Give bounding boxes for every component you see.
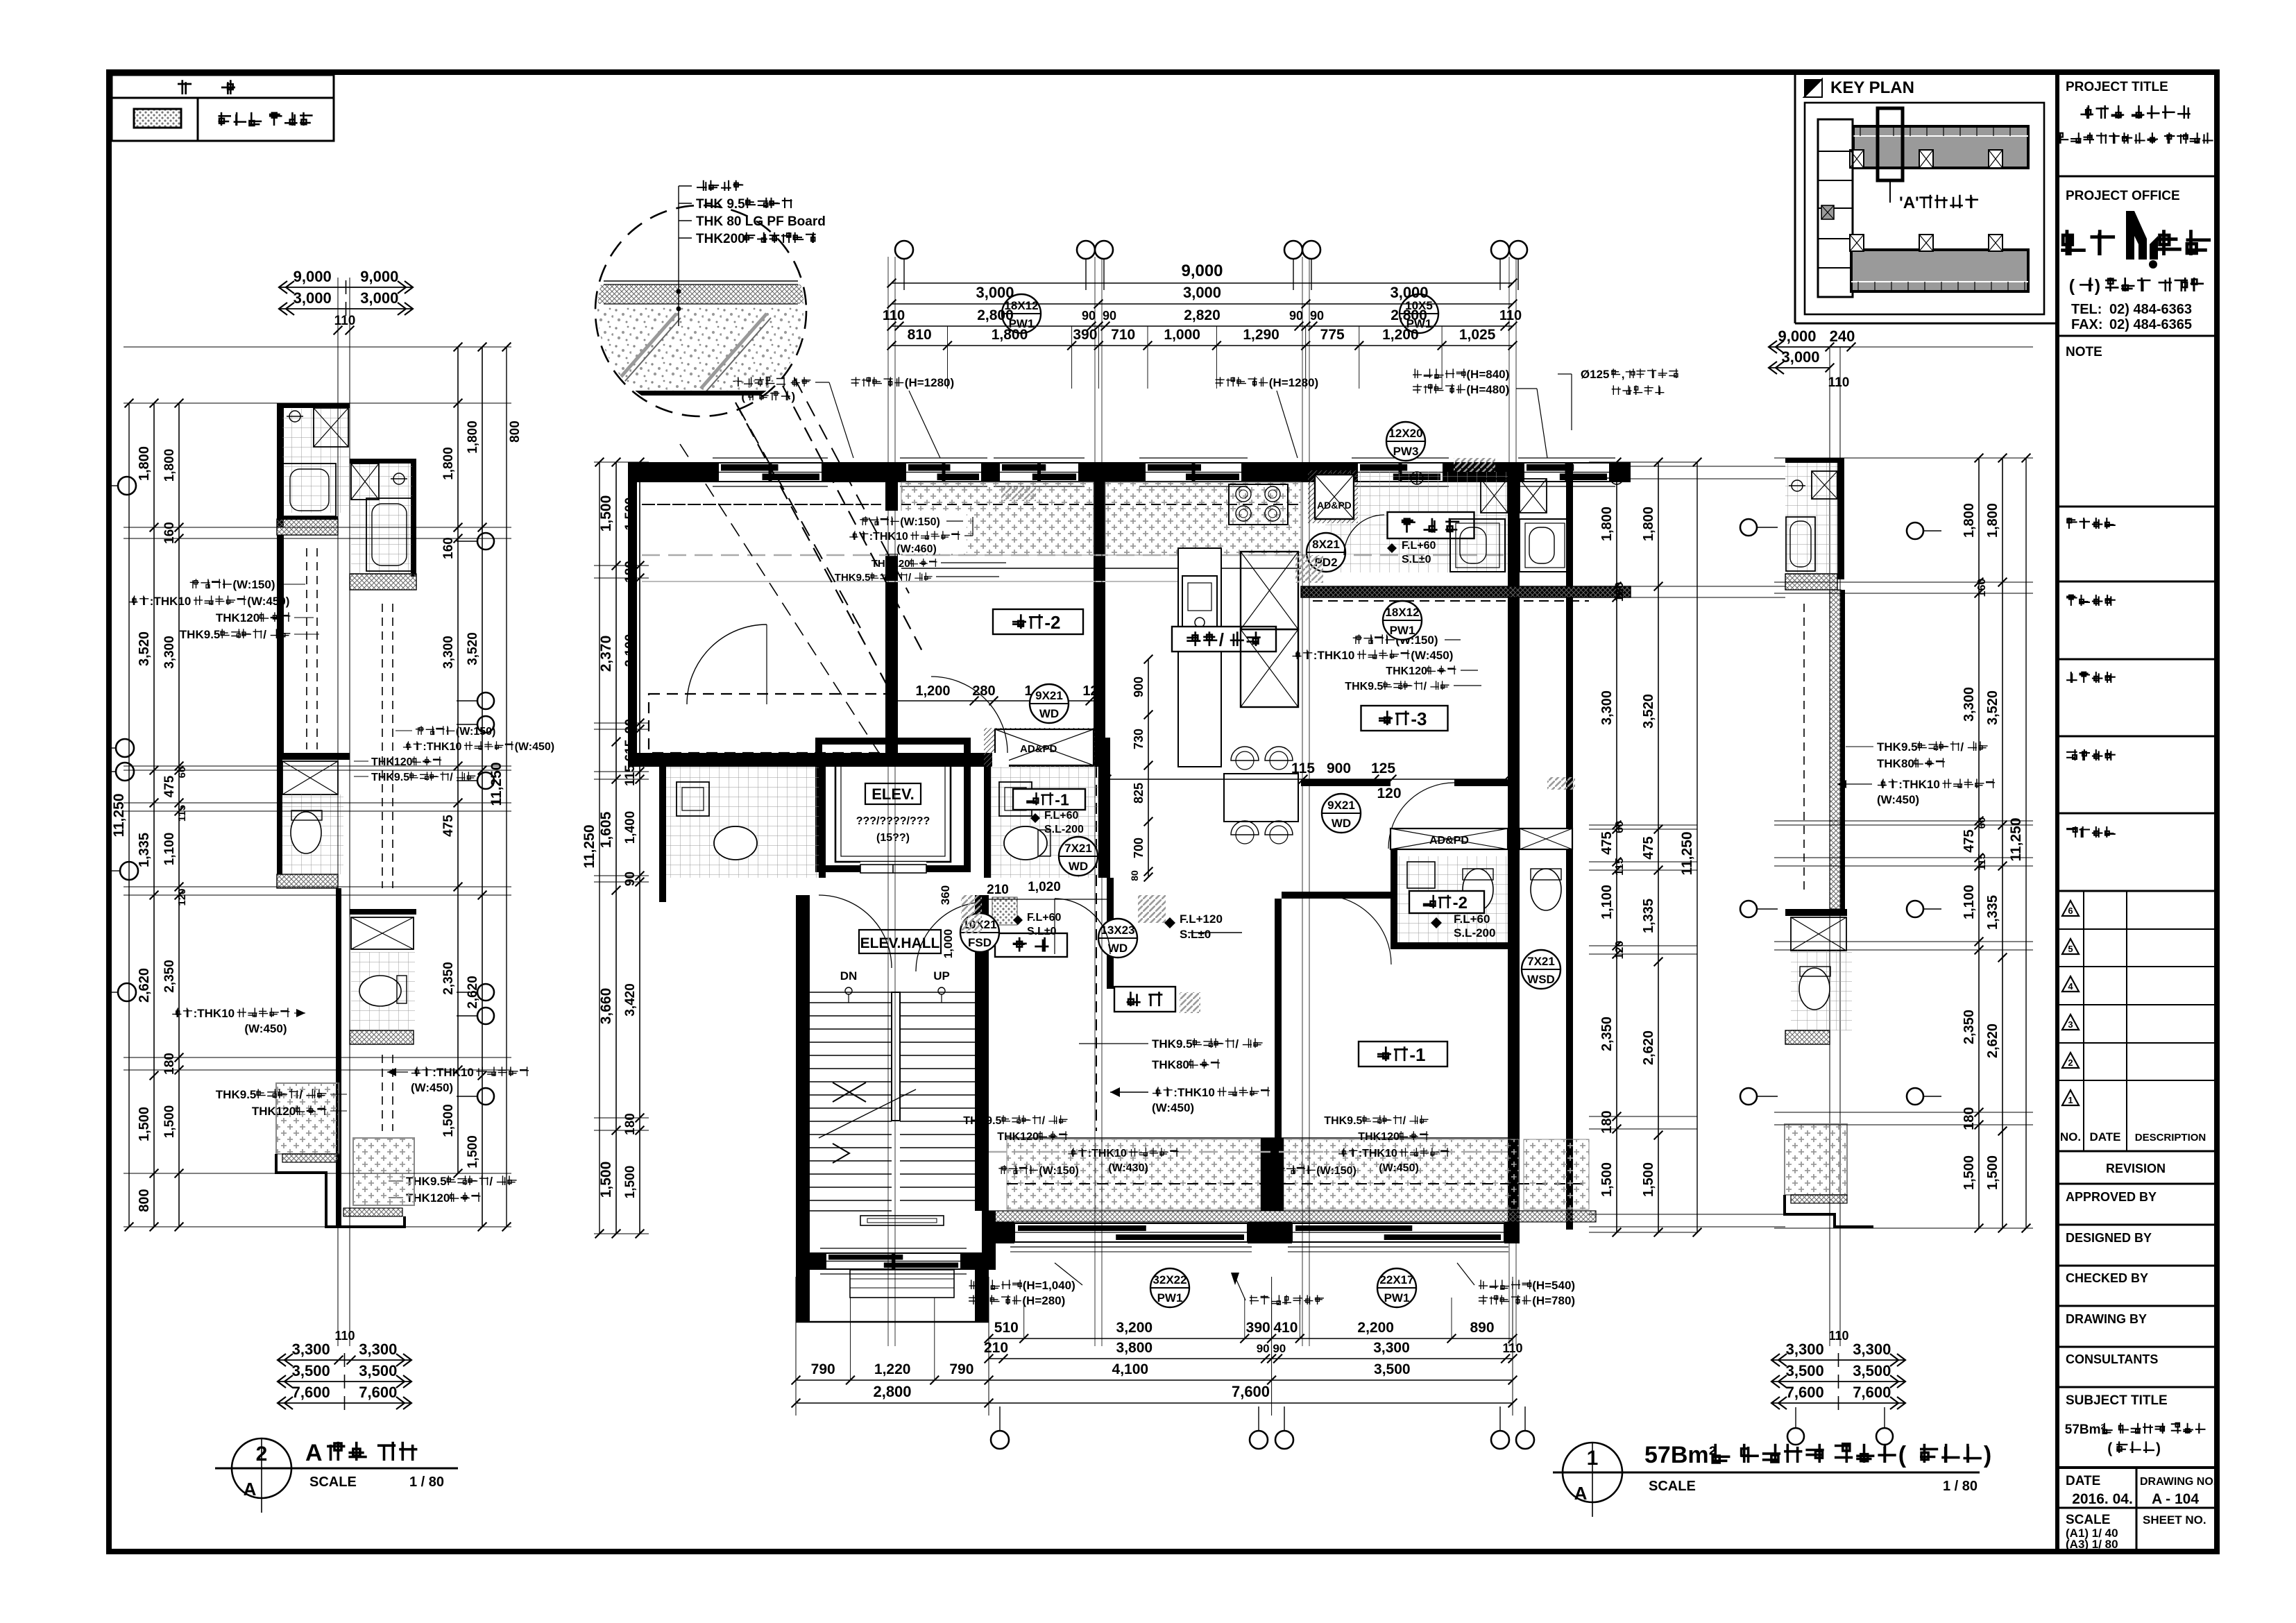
svg-text:7,600: 7,600 [1786, 1384, 1824, 1401]
svg-text:3,000: 3,000 [360, 289, 398, 307]
svg-text:(W:150): (W:150) [232, 578, 275, 591]
closet (X) next to kitchen [1241, 552, 1298, 629]
right strip balcony hatches [1785, 1124, 1847, 1195]
left strip left leaders lower [172, 1008, 181, 1017]
svg-text:F.L+60: F.L+60 [1454, 912, 1490, 926]
svg-text:2: 2 [256, 1443, 268, 1465]
svg-text:,: , [1622, 368, 1625, 381]
svg-text:(W:450): (W:450) [244, 1022, 287, 1035]
stair block bottom wall [796, 1252, 989, 1270]
svg-text:WD: WD [1108, 942, 1128, 955]
svg-text:(W:450): (W:450) [247, 595, 289, 608]
svg-text:120: 120 [1377, 785, 1401, 801]
svg-text:60: 60 [1614, 821, 1626, 833]
svg-text:): ) [792, 390, 796, 403]
demolition dashed diagonals [735, 402, 892, 694]
svg-text:(W:430): (W:430) [1108, 1162, 1148, 1174]
svg-text:110: 110 [1499, 308, 1522, 323]
svg-text:3,520: 3,520 [466, 632, 480, 665]
svg-text:SCALE: SCALE [2066, 1513, 2110, 1527]
bathtub neighbour [1520, 519, 1570, 572]
svg-text:18X12: 18X12 [1385, 606, 1419, 619]
left strip right-side dims [457, 347, 459, 1173]
top dim chains [892, 282, 1513, 284]
svg-text:9,000: 9,000 [1181, 262, 1223, 280]
svg-text:3,300: 3,300 [162, 636, 177, 669]
right dim chains of main plan [1589, 461, 1697, 463]
svg-text:1: 1 [2068, 1095, 2073, 1105]
svg-text:110: 110 [883, 308, 905, 323]
svg-text:THK120: THK120 [216, 611, 260, 624]
svg-text:S.L±0: S.L±0 [1402, 554, 1431, 566]
svg-text:790: 790 [811, 1361, 835, 1377]
svg-text:3,500: 3,500 [1853, 1362, 1891, 1379]
svg-text:CONSULTANTS: CONSULTANTS [2066, 1352, 2158, 1366]
svg-text:730: 730 [1132, 729, 1146, 749]
svg-text:AD&PD: AD&PD [1317, 500, 1352, 511]
svg-text:120: 120 [1614, 941, 1626, 960]
svg-text:475: 475 [1641, 836, 1656, 859]
svg-text:3: 3 [2068, 1019, 2073, 1030]
svg-text:1,290: 1,290 [1243, 327, 1279, 343]
svg-text:90: 90 [1082, 309, 1096, 323]
svg-text:240: 240 [1830, 328, 1855, 345]
svg-text::THK10: :THK10 [1313, 649, 1355, 662]
svg-text:THK9.5: THK9.5 [371, 772, 409, 783]
left strip top bath [277, 403, 350, 408]
svg-text:2,800: 2,800 [873, 1383, 911, 1400]
faucet symbols [1411, 472, 1423, 484]
svg-text:360: 360 [939, 885, 952, 905]
svg-text::THK10: :THK10 [869, 531, 908, 543]
svg-text:80: 80 [1129, 870, 1140, 881]
svg-text:(A3) 1/ 80: (A3) 1/ 80 [2066, 1538, 2118, 1551]
svg-text:3,000: 3,000 [1390, 284, 1428, 301]
svg-text:4,100: 4,100 [1112, 1361, 1149, 1377]
bed2 door opening [992, 753, 1009, 767]
svg-text:1,500: 1,500 [1962, 1155, 1977, 1190]
svg-text:(W:150): (W:150) [456, 726, 496, 738]
svg-text:DESIGNED BY: DESIGNED BY [2066, 1231, 2152, 1245]
svg-text:700: 700 [1132, 838, 1146, 858]
AD&PD next to elevator [984, 728, 1095, 767]
svg-text:1 / 80: 1 / 80 [409, 1475, 444, 1490]
bath2 (욕실-2) [1391, 849, 1397, 946]
neighbour toilet [1531, 869, 1561, 910]
left party wall / grid walls [885, 462, 898, 767]
svg-text:120: 120 [176, 888, 188, 906]
svg-text:F.L+60: F.L+60 [1027, 912, 1061, 924]
svg-text:120: 120 [1082, 683, 1105, 699]
svg-text:DRAWING BY: DRAWING BY [2066, 1312, 2147, 1326]
bath1 (욕실-1) [988, 767, 1103, 878]
svg-text:UP: UP [933, 969, 950, 983]
svg-text:NOTE: NOTE [2066, 345, 2102, 359]
svg-text:2,100: 2,100 [623, 634, 638, 668]
svg-text:PW1: PW1 [1390, 624, 1415, 637]
right strip top dims [1769, 346, 1851, 348]
keyplan upper wing [1853, 126, 2028, 168]
svg-text:475: 475 [441, 815, 456, 837]
svg-text:390: 390 [1073, 327, 1097, 343]
svg-text:390: 390 [1246, 1320, 1270, 1336]
detail leader texts [697, 180, 707, 191]
svg-text:7,600: 7,600 [1232, 1383, 1270, 1400]
svg-text:SCALE: SCALE [309, 1475, 357, 1490]
svg-text:475: 475 [1962, 829, 1977, 852]
svg-text:THK120: THK120 [252, 1105, 296, 1118]
svg-text:800: 800 [137, 1189, 152, 1212]
svg-text:APPROVED BY: APPROVED BY [2066, 1190, 2157, 1204]
svg-text:11,250: 11,250 [581, 824, 597, 868]
right strip top bath [1785, 458, 1844, 463]
svg-text:3,200: 3,200 [1116, 1320, 1153, 1336]
svg-text:1: 1 [1587, 1447, 1599, 1470]
svg-text:(W:460): (W:460) [896, 543, 937, 555]
svg-text:-3: -3 [1411, 708, 1427, 729]
bottom dim chains [989, 1338, 1513, 1339]
balcony hatched strip (top, 확장 발코니) [901, 482, 1094, 555]
svg-text:(W:450): (W:450) [1379, 1162, 1419, 1174]
svg-text:/: / [263, 628, 266, 641]
left strip grid verticals [337, 278, 339, 1346]
bedroom2 bottom wall [628, 753, 1105, 767]
svg-text:7,600: 7,600 [359, 1384, 397, 1401]
svg-text:60: 60 [176, 767, 188, 779]
svg-text:(W:150): (W:150) [900, 516, 940, 528]
svg-text:(H=840): (H=840) [1466, 368, 1509, 381]
bedroom2 room label [993, 609, 1083, 634]
svg-text:810: 810 [908, 327, 932, 343]
svg-text:FAX:: FAX: [2071, 317, 2103, 332]
key plan [1794, 72, 1796, 323]
svg-text:2: 2 [2068, 1057, 2073, 1068]
svg-text:3,300: 3,300 [1373, 1340, 1410, 1356]
svg-text:3,000: 3,000 [1183, 284, 1221, 301]
svg-text:1,500: 1,500 [1985, 1155, 2000, 1190]
svg-text:475: 475 [1599, 831, 1615, 854]
svg-text:02) 484-6363: 02) 484-6363 [2109, 302, 2192, 317]
svg-text:): ) [2156, 1441, 2161, 1456]
svg-text:Ø125: Ø125 [1581, 368, 1610, 381]
svg-text:11,250: 11,250 [111, 793, 127, 837]
svg-text:1,335: 1,335 [1641, 899, 1656, 933]
stair block side walls [796, 895, 810, 1252]
living room [1114, 987, 1175, 1012]
bottom window band [1014, 1223, 1248, 1242]
svg-text:): ) [2095, 276, 2100, 296]
svg-text:3,660: 3,660 [598, 988, 614, 1025]
svg-text:1,500: 1,500 [623, 498, 638, 531]
svg-text:DRAWING NO.: DRAWING NO. [2140, 1476, 2216, 1488]
elevator room [815, 738, 971, 745]
svg-text:90: 90 [1289, 309, 1303, 323]
grid bubbles top [895, 241, 913, 259]
left strip step boundary [276, 1154, 405, 1227]
svg-text:2,620: 2,620 [137, 968, 152, 1003]
svg-text:(W:450): (W:450) [411, 1081, 453, 1094]
left strip side dim chains [124, 402, 354, 404]
svg-text:(: ( [2069, 276, 2075, 296]
detail callout circle [595, 205, 806, 416]
svg-text:3,500: 3,500 [1786, 1362, 1824, 1379]
bathtub this unit [1450, 519, 1505, 572]
svg-text:125: 125 [1371, 760, 1395, 776]
bottom balcony hatched strips [1007, 1139, 1261, 1209]
svg-text:110: 110 [334, 1329, 355, 1343]
svg-text:2,620: 2,620 [466, 976, 480, 1009]
AD&PD shafts mid-right [1391, 829, 1508, 849]
svg-text:1,500: 1,500 [162, 1105, 177, 1139]
svg-text:9X21: 9X21 [1327, 799, 1355, 812]
left strip wall/window mid [277, 753, 350, 760]
left dim chains of main plan [615, 462, 617, 1234]
kitchen hatch leader texts [859, 511, 967, 554]
svg-text:ELEV.HALL: ELEV.HALL [860, 935, 940, 951]
svg-text:A - 104: A - 104 [2152, 1491, 2199, 1507]
svg-text:DATE: DATE [2066, 1474, 2100, 1488]
svg-text:THK200: THK200 [696, 232, 745, 246]
svg-text:/: / [1235, 1037, 1239, 1051]
svg-text:THK9.5: THK9.5 [1324, 1115, 1362, 1127]
svg-text:WSD: WSD [1527, 973, 1555, 986]
svg-text:3,300: 3,300 [1786, 1341, 1824, 1358]
svg-text:/: / [1219, 629, 1224, 650]
bedroom2 door dim row [892, 700, 1098, 702]
svg-text:/: / [1042, 1115, 1046, 1127]
svg-text:1,100: 1,100 [162, 833, 177, 866]
keyplan A-detail callout [1878, 108, 1903, 180]
svg-text:2016. 04.: 2016. 04. [2072, 1491, 2133, 1507]
vertical extension lines from grids [887, 257, 889, 1346]
interior dim column (kitchen) [1148, 659, 1149, 877]
svg-text:210: 210 [984, 1340, 1008, 1356]
svg-text:PW1: PW1 [1157, 1291, 1183, 1305]
svg-text:FSD: FSD [968, 936, 992, 949]
neighbour curtain dash [1524, 600, 1589, 602]
left strip column B (right, shifted down 800) [350, 459, 416, 464]
bottom-right strip bubbles [1787, 1428, 1804, 1445]
svg-text:THK9.5: THK9.5 [835, 572, 871, 584]
ELEV label [865, 783, 921, 804]
svg-text:11,250: 11,250 [488, 762, 504, 806]
svg-text:775: 775 [1320, 327, 1345, 343]
svg-text:1,500: 1,500 [623, 1166, 638, 1199]
neighbour dashed curtain lines [645, 504, 881, 505]
svg-text::THK10: :THK10 [423, 741, 461, 753]
svg-text:THK120: THK120 [1386, 665, 1427, 677]
svg-text::THK10: :THK10 [1173, 1086, 1215, 1099]
svg-text:110: 110 [1828, 375, 1850, 390]
svg-text:1,605: 1,605 [598, 811, 614, 848]
right strip mid walls [1785, 909, 1847, 916]
svg-text:2,350: 2,350 [441, 962, 456, 995]
svg-text:CHECKED BY: CHECKED BY [2066, 1271, 2148, 1285]
svg-text:THK80: THK80 [1152, 1058, 1189, 1071]
sill wall below balcony [1301, 586, 1631, 597]
svg-text:2,820: 2,820 [1184, 307, 1221, 323]
svg-text:1,220: 1,220 [874, 1361, 911, 1377]
bed2 window tag + door arc [1030, 684, 1069, 723]
svg-text:2,350: 2,350 [1599, 1017, 1615, 1051]
svg-text:-1: -1 [1409, 1044, 1425, 1065]
bed1 wall + room [1275, 899, 1282, 1138]
svg-text:DATE: DATE [2089, 1130, 2120, 1144]
svg-text:/: / [489, 1175, 493, 1188]
left strip lower bath [282, 794, 343, 874]
svg-text:57Bm²: 57Bm² [2065, 1422, 2105, 1437]
svg-text:57Bm²: 57Bm² [1644, 1442, 1717, 1468]
svg-text:9,000: 9,000 [1778, 328, 1816, 345]
svg-text:900: 900 [1132, 677, 1146, 697]
keyplan lower wing [1851, 250, 2028, 291]
svg-text:DESCRIPTION: DESCRIPTION [2135, 1132, 2206, 1144]
svg-text:1,800: 1,800 [1962, 503, 1977, 538]
svg-text:/: / [299, 1088, 303, 1101]
bedroom3 [1361, 706, 1448, 731]
svg-text:1,100: 1,100 [1599, 885, 1615, 919]
svg-text:1,335: 1,335 [1985, 895, 2000, 930]
left strip room + dashed [277, 535, 284, 753]
svg-text:6: 6 [2068, 906, 2073, 916]
svg-text:SUBJECT TITLE: SUBJECT TITLE [2066, 1393, 2168, 1408]
svg-text:3,420: 3,420 [623, 983, 638, 1017]
svg-text:F.L+60: F.L+60 [1044, 810, 1078, 822]
svg-text:180: 180 [1962, 1107, 1977, 1130]
svg-text:SCALE: SCALE [1649, 1479, 1696, 1494]
left neighbour bath [666, 767, 819, 878]
svg-text:): ) [1984, 1442, 1991, 1468]
svg-text:THK 9.5: THK 9.5 [696, 197, 745, 212]
svg-text:900: 900 [1327, 760, 1351, 776]
svg-text:2,800: 2,800 [977, 307, 1014, 323]
svg-text:1,500: 1,500 [598, 1162, 614, 1198]
svg-text:7,600: 7,600 [1853, 1384, 1891, 1401]
svg-text:/: / [1424, 681, 1427, 692]
svg-text:90: 90 [623, 719, 638, 733]
svg-text:(H=280): (H=280) [1022, 1294, 1065, 1307]
svg-text:9,000: 9,000 [360, 268, 398, 285]
svg-text:3,800: 3,800 [1116, 1340, 1153, 1356]
top leader notes [733, 377, 742, 386]
svg-text:(W:150): (W:150) [1039, 1165, 1079, 1177]
thin continuation lines toward right strip [1631, 466, 1785, 467]
stair bottom landing [810, 1210, 892, 1212]
svg-text:9X21: 9X21 [1035, 689, 1063, 702]
svg-text:/: / [1960, 740, 1964, 754]
svg-text:A: A [1574, 1483, 1588, 1504]
svg-text:1,100: 1,100 [1962, 885, 1977, 919]
svg-text:11,250: 11,250 [1679, 831, 1695, 875]
neighbour dashed closet [649, 694, 888, 753]
svg-text:115: 115 [1291, 760, 1315, 776]
svg-text:710: 710 [1111, 327, 1135, 343]
left strip leaders upper [190, 579, 199, 588]
svg-text:3,300: 3,300 [441, 636, 456, 669]
neighbour door arc [687, 624, 767, 704]
svg-text:SHEET NO.: SHEET NO. [2143, 1513, 2206, 1527]
svg-text:3,520: 3,520 [1985, 690, 2000, 725]
neighbour bottom hatch + window [1524, 1139, 1589, 1209]
svg-text:180: 180 [1599, 1110, 1615, 1133]
svg-text:2,800: 2,800 [1391, 307, 1427, 323]
balcony mid dashed line [1007, 1183, 1261, 1184]
svg-text:12X20: 12X20 [1388, 427, 1422, 440]
svg-text:(W:450): (W:450) [1411, 649, 1453, 662]
svg-text:475: 475 [162, 775, 177, 797]
svg-text:3,300: 3,300 [1599, 690, 1615, 725]
svg-text::THK10: :THK10 [1088, 1148, 1127, 1159]
svg-text:(H=780): (H=780) [1532, 1294, 1575, 1307]
svg-text:THK120: THK120 [1358, 1131, 1400, 1143]
view title 1: 57B [1563, 1443, 1622, 1502]
svg-text:THK 80 LG PF Board: THK 80 LG PF Board [696, 214, 826, 229]
svg-text:THK9.5: THK9.5 [216, 1088, 257, 1101]
svg-text:3,000: 3,000 [976, 284, 1014, 301]
svg-text:THK80: THK80 [1877, 757, 1914, 770]
svg-text:180: 180 [623, 561, 638, 583]
svg-text:11,250: 11,250 [2008, 817, 2024, 861]
svg-text:THK120: THK120 [997, 1131, 1039, 1143]
svg-text:1,020: 1,020 [1028, 880, 1061, 894]
svg-text:REVISION: REVISION [2106, 1162, 2166, 1175]
svg-text:'A': 'A' [1899, 194, 1919, 212]
svg-text:1,500: 1,500 [1599, 1162, 1615, 1197]
svg-text:WD: WD [1069, 860, 1088, 873]
AD&PD shaft top [1308, 470, 1358, 523]
svg-text:3,000: 3,000 [1781, 348, 1819, 366]
svg-text:AD&PD: AD&PD [1020, 743, 1057, 755]
left strip lower-right leaders [416, 726, 424, 735]
svg-text:1,500: 1,500 [441, 1104, 456, 1137]
right margin bubble pair [1907, 522, 1923, 539]
svg-text:180: 180 [162, 1053, 177, 1075]
svg-text:THK9.5: THK9.5 [180, 628, 221, 641]
right margin bubbles [1740, 519, 1757, 536]
svg-text:(H=480): (H=480) [1466, 383, 1509, 396]
svg-text:1,500: 1,500 [137, 1107, 152, 1141]
svg-text:180: 180 [623, 1113, 638, 1135]
svg-text:2,200: 2,200 [1357, 1320, 1394, 1336]
svg-text:3,300: 3,300 [1962, 687, 1977, 722]
callout connection dashed lines [738, 406, 860, 628]
svg-text:3,300: 3,300 [292, 1341, 330, 1358]
left strip unit B mid [336, 888, 341, 1227]
svg-text:90 90: 90 90 [1257, 1342, 1286, 1355]
right strip room: wall hatch column [1830, 590, 1841, 909]
bottom grid bubbles [991, 1431, 1009, 1449]
svg-text:210: 210 [987, 883, 1009, 897]
svg-text:3,500: 3,500 [359, 1362, 397, 1379]
svg-text:7X21: 7X21 [1064, 842, 1092, 855]
svg-text:90: 90 [1103, 309, 1116, 323]
svg-text:A: A [305, 1440, 323, 1466]
svg-text:3,520: 3,520 [1641, 694, 1656, 729]
right strip right-side dim chains [1774, 457, 2033, 459]
svg-text:F.L+120: F.L+120 [1180, 912, 1223, 926]
svg-text:1,200: 1,200 [1382, 327, 1419, 343]
svg-text:PROJECT OFFICE: PROJECT OFFICE [2066, 189, 2180, 203]
svg-text:115: 115 [1614, 858, 1626, 876]
right strip hatch sill [1785, 574, 1837, 590]
svg-text:1,400: 1,400 [623, 811, 638, 844]
svg-text:-2: -2 [1044, 612, 1060, 633]
svg-text:S.L±0: S.L±0 [1180, 928, 1211, 941]
svg-text:(H=1280): (H=1280) [1269, 376, 1318, 389]
svg-text:-1: -1 [1055, 790, 1069, 808]
svg-text:1,500: 1,500 [1641, 1162, 1656, 1197]
svg-text:2,620: 2,620 [1985, 1023, 2000, 1058]
